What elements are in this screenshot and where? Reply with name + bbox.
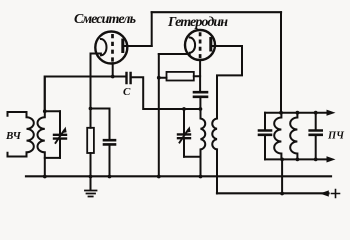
- wire: mixer grid line: [45, 77, 127, 112]
- wire: U1 cathode down: [90, 54, 92, 128]
- wire: U2 anode to tickler coil: [212, 46, 242, 119]
- tube U2 grid (dashed): [199, 32, 202, 58]
- inductor L5 IF primary: [274, 113, 281, 160]
- node: RF tank top junction: [43, 109, 47, 113]
- arrow: IF output top: [327, 110, 336, 116]
- node: het tank var-cap junction: [182, 107, 186, 111]
- wire: U2 grid lead down: [199, 60, 201, 92]
- svg-text:С: С: [123, 86, 131, 98]
- tube U1 grid (dashed): [111, 34, 114, 62]
- resistor R2 grid leak body: [167, 72, 194, 81]
- node: IF secondary bottom: [296, 158, 300, 162]
- capacitor C5 IF left leads: [264, 113, 266, 160]
- capacitor C6 IF right leads: [315, 113, 317, 160]
- node: IF right cap bottom: [314, 158, 318, 162]
- wire: U1 cathode lead: [91, 53, 101, 55]
- capacitor C5 IF left plates: [259, 131, 271, 135]
- node: mixer cathode branch: [89, 107, 93, 111]
- node: IF bottom feed junction: [280, 158, 284, 162]
- inductor L3 heterodyne tank coil: [201, 109, 206, 177]
- node: het grid-leak left junction: [157, 76, 161, 80]
- wire: top rail down to IF transformer top: [280, 12, 282, 113]
- wire: cathode branch to bypass cap: [91, 109, 110, 141]
- wire: grid cap to tank: [199, 97, 201, 109]
- resistor R1 cathode body: [87, 128, 94, 153]
- variable capacitor C1 arrow: [56, 130, 65, 143]
- tube U2 anode bar: [209, 39, 212, 51]
- capacitor C6 IF right plates: [310, 131, 322, 135]
- wire: RF tank top connector to var cap: [45, 110, 60, 112]
- variable capacitor C1 plates: [54, 135, 66, 139]
- resistor R2 grid leak leads: [159, 76, 200, 78]
- variable capacitor C1 leads: [59, 111, 61, 158]
- capacitor C3 cathode bypass plates: [104, 140, 115, 144]
- inductor L2 RF secondary: [37, 77, 44, 177]
- node: rail junction het cathode: [157, 175, 161, 179]
- arrow: IF output bottom: [327, 156, 336, 162]
- svg-text:Гетеродин: Гетеродин: [167, 15, 228, 30]
- node: IF right cap top: [314, 111, 318, 115]
- wire: bypass cap to ground rail: [109, 144, 111, 176]
- wire: IF transformer top line: [265, 112, 329, 114]
- wire: from C to heterodyne tank: [131, 77, 201, 109]
- wire: mixer anode lead: [124, 45, 152, 47]
- node: rail junction L2: [43, 175, 47, 179]
- node: rail junction R1: [89, 175, 93, 179]
- node: rail junction L3: [199, 175, 203, 179]
- ground symbol: [90, 177, 92, 191]
- wire: U2 cathode lead to left: [159, 53, 190, 55]
- wire: R1 bottom lead: [90, 153, 92, 177]
- wire: U2 cathode line down to ground rail: [158, 54, 160, 177]
- inductor L1 antenna primary: [27, 112, 34, 157]
- svg-text:Смеситель: Смеситель: [74, 12, 136, 27]
- node: grid junction U1: [111, 75, 115, 79]
- capacitor C coupling plates: [127, 73, 131, 83]
- wire: RF var cap bottom jog: [45, 157, 60, 159]
- inductor L6 IF secondary: [290, 113, 297, 160]
- node: het grid cap junction: [199, 107, 203, 111]
- node: IF top junction: [279, 111, 283, 115]
- capacitor C2 heterodyne grid plates: [194, 92, 207, 97]
- node: plus rail junction: [280, 192, 284, 196]
- node: rail junction C3: [108, 175, 112, 179]
- svg-text:ВЧ: ВЧ: [5, 130, 22, 142]
- wire: riser from mixer anode to top rail: [151, 12, 153, 46]
- inductor L4 tickler coil: [212, 119, 217, 150]
- wire: ground rail: [26, 175, 331, 177]
- terminal plus sign: [332, 190, 340, 198]
- tube U1 anode bar: [121, 40, 124, 52]
- variable capacitor C4 plates: [178, 134, 190, 138]
- svg-text:ПЧ: ПЧ: [327, 131, 345, 142]
- tube U2 heterodyne envelope: [185, 30, 215, 60]
- variable capacitor C4 heterodyne leads: [183, 109, 185, 157]
- wire: top B+ rail: [152, 11, 281, 13]
- wire: U1 grid bottom lead: [112, 63, 114, 76]
- wire: IF feed down to plus rail: [281, 159, 283, 193]
- arrow: plus feed (points left): [320, 190, 329, 196]
- wire: plus supply rail: [217, 192, 329, 194]
- tube U1 cathode arc: [101, 39, 107, 55]
- tube U1 mixer envelope: [95, 32, 127, 64]
- node: IF secondary top: [296, 111, 300, 115]
- tube U2 cathode arc: [190, 38, 195, 53]
- variable capacitor C4 arrow: [180, 130, 189, 143]
- terminal ВЧ input hooks: [8, 112, 27, 157]
- wire: tickler bottom to plus rail: [216, 149, 218, 193]
- wire: het var cap bottom jog: [184, 156, 201, 158]
- wire: IF bottom line: [265, 158, 330, 160]
